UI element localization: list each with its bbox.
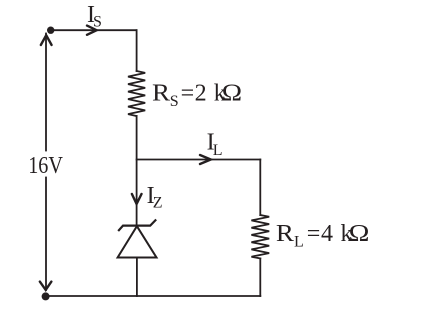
svg-text:Ω: Ω <box>222 81 242 107</box>
svg-text:S: S <box>93 14 102 31</box>
svg-text:=: = <box>181 81 195 107</box>
svg-text:=: = <box>307 221 321 247</box>
svg-text:4: 4 <box>321 221 333 247</box>
svg-text:L: L <box>213 142 223 159</box>
svg-text:2: 2 <box>195 81 207 107</box>
svg-text:Z: Z <box>153 195 163 212</box>
svg-text:Ω: Ω <box>349 221 370 247</box>
svg-text:L: L <box>294 233 304 250</box>
svg-text:R: R <box>152 81 170 107</box>
svg-text:S: S <box>170 93 179 110</box>
svg-text:R: R <box>276 221 294 247</box>
svg-text:16V: 16V <box>28 153 63 179</box>
